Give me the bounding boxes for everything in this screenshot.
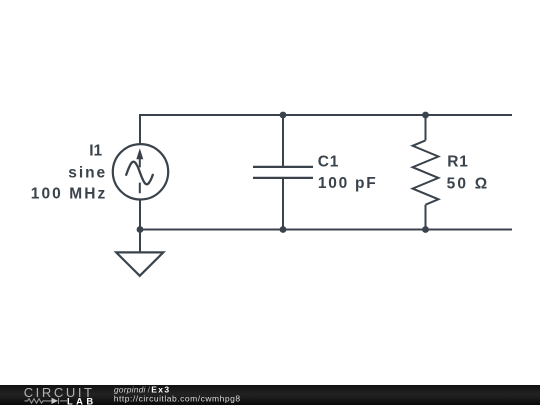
svg-text:R1: R1 [447,154,468,171]
wire: C1 top lead [282,115,284,166]
resistor R1 zigzag [413,140,439,204]
svg-text:http://circuitlab.com/cwmhpg8: http://circuitlab.com/cwmhpg8 [114,393,241,403]
wire: bottom (ground) net to right edge [140,229,512,231]
node junction dot bottom R1 [422,226,429,233]
svg-text:100 pF: 100 pF [318,175,376,192]
wire: top net from I1 up and to right edge [140,115,512,144]
logo resistor squiggle + diode [25,397,68,403]
ground symbol [116,252,163,275]
sine glyph [126,162,153,185]
svg-text:C1: C1 [318,153,339,170]
node junction dot bottom I1/ground [137,226,144,233]
node junction dot bottom C1 [280,226,287,233]
svg-text:50 Ω: 50 Ω [447,175,488,192]
svg-text:sine: sine [68,165,105,182]
capacitor C1 plates [253,167,313,178]
arrow shaft (broken where sine crosses) [139,157,141,194]
arrow head [136,148,143,159]
node junction dot top C1 [280,112,287,119]
svg-text:100 MHz: 100 MHz [31,185,106,202]
svg-text:I1: I1 [89,143,102,160]
wire: C1 bottom lead [282,179,284,230]
wire: R1 top lead [425,115,427,140]
current source I1 (sine, 100 MHz) [113,144,168,199]
footer bar [0,385,540,405]
svg-text:LAB: LAB [67,395,93,406]
node junction dot top R1 [422,112,429,119]
label I1 name [31,143,487,203]
wire: R1 bottom lead [425,205,427,230]
wire: I1 bottom lead down to ground [139,200,141,252]
